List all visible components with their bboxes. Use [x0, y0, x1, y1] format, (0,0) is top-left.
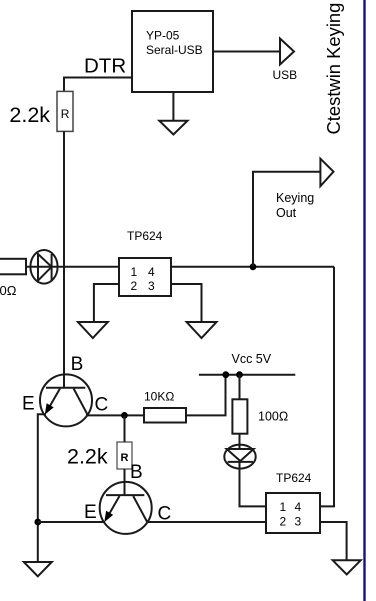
svg-text:TP624: TP624 [127, 229, 163, 243]
wire Q2 collector to U3 pin2 [147, 521, 266, 523]
svg-text:TP624: TP624 [276, 471, 312, 485]
resistor R1 [57, 91, 73, 131]
wire main input [26, 266, 119, 268]
node collector junction dot [121, 412, 128, 419]
wire Vcc to R4 [239, 375, 241, 400]
ground G4 [24, 562, 52, 576]
border line navy [363, 0, 365, 601]
node junction dot [250, 263, 257, 270]
svg-text:C: C [95, 395, 109, 416]
svg-text:Vcc 5V: Vcc 5V [232, 352, 272, 366]
wire Q1 collector [86, 414, 144, 416]
svg-text:E: E [22, 394, 35, 415]
svg-text:100Ω: 100Ω [258, 410, 288, 424]
ground G1 [159, 121, 187, 135]
label Keying Out [276, 191, 314, 220]
wire USB [213, 51, 280, 53]
wire R1 to Q1 base [63, 131, 65, 387]
node emitter junction dot [34, 519, 41, 526]
wire pin4 output [171, 266, 334, 268]
wire pin2 to ground [94, 284, 119, 322]
svg-text:100Ω: 100Ω [0, 283, 17, 298]
wire right vertical to U3 pin4 [320, 267, 334, 507]
svg-text:2.2k: 2.2k [67, 445, 108, 469]
wire R3 to Vcc rail [186, 375, 226, 416]
svg-text:R: R [121, 452, 129, 464]
wire dot to R2 [124, 415, 126, 442]
svg-text:B: B [130, 462, 143, 483]
svg-text:2.2k: 2.2k [9, 103, 50, 127]
node Vcc dot 1 [222, 371, 229, 378]
ground G2 [78, 322, 108, 338]
Vcc rail [199, 374, 295, 376]
LED D2 [224, 445, 255, 469]
serial adapter U1 YP-05 [132, 11, 213, 92]
resistor R2 [117, 442, 132, 469]
optocoupler U3 TP624 [266, 493, 320, 533]
transistor Q1 [40, 374, 92, 426]
wire Q2 emitter [38, 521, 105, 523]
transistor Q2 [100, 482, 152, 534]
svg-text:10KΩ: 10KΩ [144, 390, 174, 404]
wire D2 to U3 pin1 [240, 462, 267, 507]
optocoupler U2 TP624 [119, 258, 171, 296]
svg-text:USB: USB [273, 68, 298, 82]
wire pin3 to ground [171, 284, 202, 322]
svg-text:Out: Out [276, 206, 297, 220]
wire from U1 to ground [172, 92, 174, 121]
node Vcc dot 2 [236, 371, 243, 378]
wire pin3 to ground [320, 522, 347, 560]
LED D1 [30, 250, 57, 284]
wire R4 to D2 [239, 434, 241, 449]
svg-text:YP-05: YP-05 [146, 29, 180, 43]
keying out arrow [320, 159, 333, 187]
svg-text:B: B [71, 354, 84, 375]
svg-text:Ctestwin Keying: Ctestwin Keying [323, 3, 344, 135]
svg-text:R: R [61, 107, 70, 121]
ground G5 [333, 560, 361, 574]
resistor R4 100Ω [232, 399, 247, 433]
resistor R0 (partially off-canvas) [0, 259, 26, 275]
svg-text:E: E [84, 502, 97, 523]
ground G3 [187, 322, 217, 338]
svg-text:Seral-USB: Seral-USB [146, 43, 203, 57]
wire R2 to Q2 base [124, 469, 126, 495]
wire keying out [253, 172, 320, 267]
resistor R3 10KΩ [144, 408, 186, 423]
svg-text:Keying: Keying [276, 191, 314, 205]
wire DTR [64, 78, 132, 92]
USB arrow [280, 39, 294, 65]
wire Q1 emitter [38, 414, 46, 562]
svg-text:DTR: DTR [84, 55, 126, 78]
